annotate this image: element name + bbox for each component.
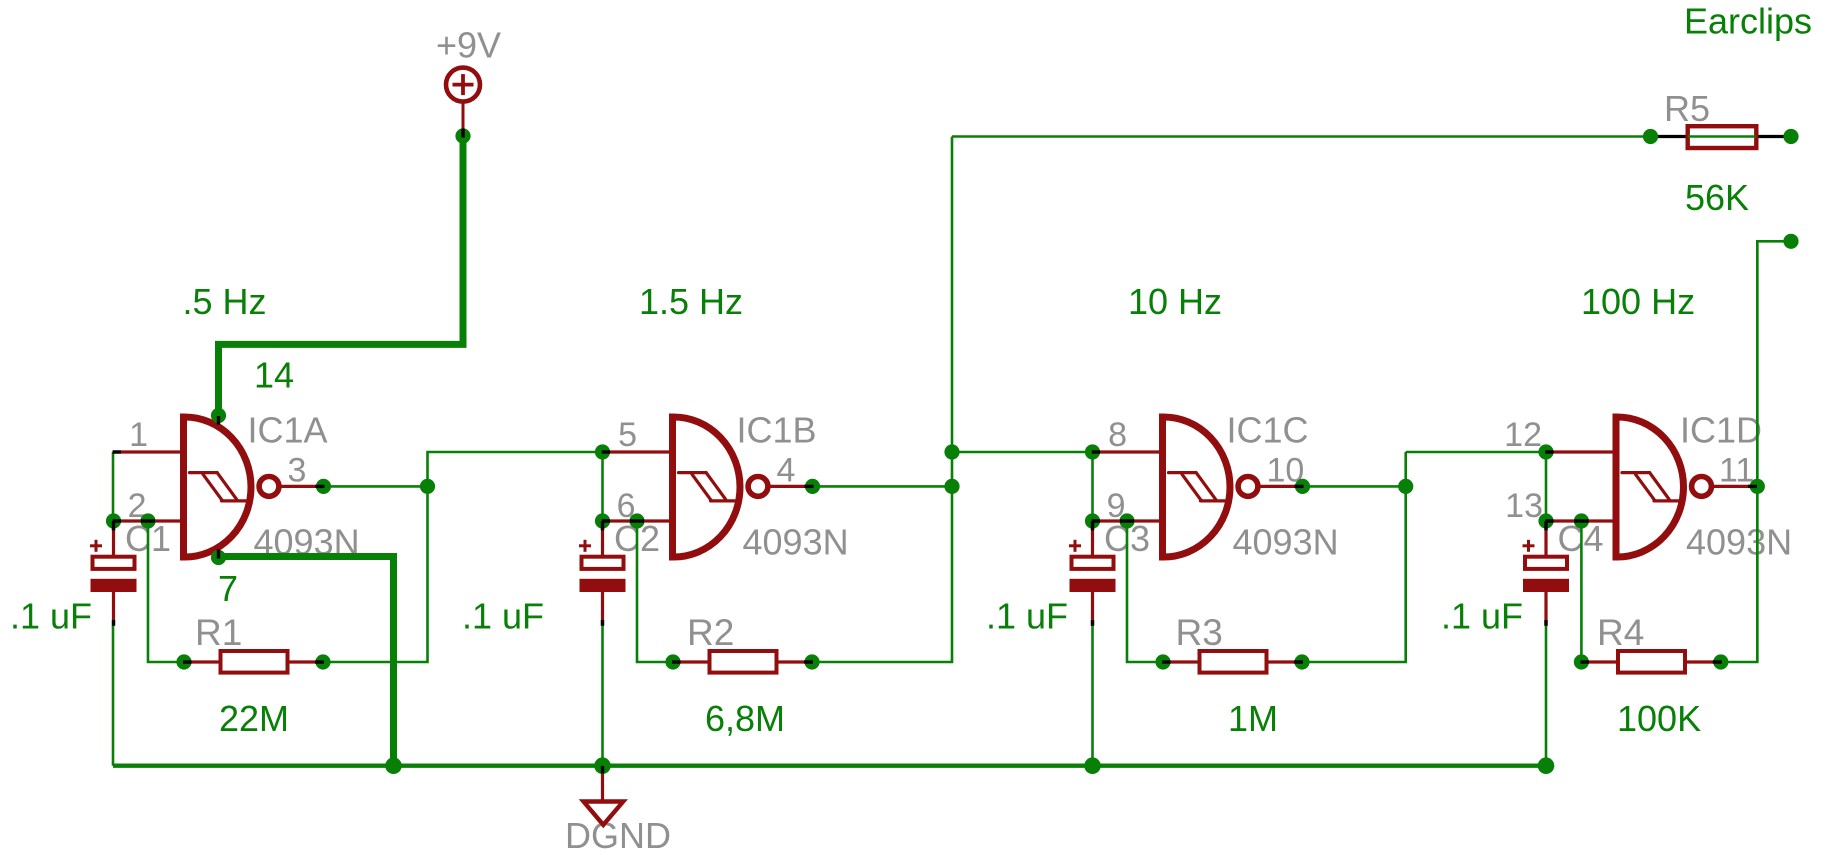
junction R1 left — [176, 654, 191, 669]
pin contact at R4 feedback tap — [1574, 519, 1588, 522]
capacitor C4 bottom lead — [1544, 592, 1547, 626]
resistor R4 body — [1618, 651, 1685, 673]
junction node B at pin8 wire — [944, 444, 959, 459]
junction R1 right — [315, 654, 330, 669]
junction R3 left — [1155, 654, 1170, 669]
svg-text:12: 12 — [1504, 416, 1542, 454]
wire IC1C output to node C — [1303, 485, 1406, 488]
supply symbol +9V — [446, 68, 480, 136]
capacitor C3 plus sign — [1069, 540, 1081, 552]
ground symbol DGND triangle — [584, 802, 624, 825]
wire R2 left leg — [637, 521, 673, 662]
junction R4 right — [1713, 654, 1728, 669]
svg-text:R4: R4 — [1597, 612, 1644, 653]
resistor R2 body — [710, 651, 777, 673]
junction R3 feedback tap — [1119, 513, 1134, 528]
IC1C pin 10 stub — [1258, 485, 1303, 488]
NAND gate IC1B body — [673, 417, 741, 557]
capacitor C1 top lead — [112, 521, 115, 556]
svg-text:22M: 22M — [219, 698, 289, 739]
svg-text:IC1D: IC1D — [1680, 410, 1762, 451]
wire IC1B output to node B — [813, 485, 953, 488]
capacitor C2 bottom plate — [580, 579, 626, 592]
pin tip R2 right — [804, 660, 813, 663]
NAND gate IC1A body — [184, 417, 252, 557]
pin tip IC1D pin 12 — [1545, 450, 1553, 453]
resistor R4 right lead — [1687, 660, 1721, 663]
capacitor C3 bottom plate — [1070, 579, 1116, 592]
junction node B at output wire — [944, 479, 959, 494]
wire +9V supply (thick) — [219, 136, 464, 416]
junction R5 right / Earclips — [1783, 129, 1798, 144]
IC1A pin 1 stub — [113, 450, 184, 453]
svg-text:IC1C: IC1C — [1227, 410, 1309, 451]
pin tip IC1A pin14 — [217, 416, 220, 425]
junction IC1A output node — [420, 479, 435, 494]
svg-text:1M: 1M — [1228, 698, 1278, 739]
junction R5 left — [1643, 129, 1658, 144]
capacitor C2 top lead — [601, 521, 604, 556]
junction IC1A bottom input / cap top — [106, 513, 121, 528]
wire R1 left leg — [148, 521, 184, 662]
wire IC1A pin7 to ground bus (thick) — [219, 557, 394, 766]
capacitor C1 plus sign — [90, 540, 102, 552]
resistor R4 left lead — [1581, 660, 1616, 663]
IC1D inversion bubble — [1692, 477, 1712, 497]
IC1B pin 5 stub — [602, 450, 673, 453]
pin tip IC1D pin 13 — [1545, 519, 1553, 522]
svg-text:100 Hz: 100 Hz — [1581, 281, 1695, 322]
wire ground bus — [113, 764, 1546, 768]
wire node B vertical (IC1B output net) — [813, 137, 953, 663]
pin contact at R1 feedback tap — [141, 519, 155, 522]
svg-text:.1 uF: .1 uF — [10, 596, 92, 637]
capacitor C4 plus sign — [1523, 540, 1535, 552]
capacitor C1 top plate — [93, 557, 135, 569]
pin tip IC1C pin 9 — [1092, 519, 1100, 522]
capacitor C2 plus sign — [579, 540, 591, 552]
junction R2 left — [665, 654, 680, 669]
IC1D pin 13 stub — [1545, 519, 1616, 522]
pin tip DGND — [601, 766, 604, 774]
IC1D pin 12 stub — [1545, 450, 1616, 453]
svg-text:8: 8 — [1108, 416, 1127, 454]
pin tip C1 bottom — [112, 620, 115, 626]
resistor R5 right lead (black) — [1758, 135, 1791, 138]
pin tip IC1B pin 5 — [602, 450, 610, 453]
IC1C pin 9 stub — [1092, 519, 1163, 522]
IC1A pin 2 stub — [113, 519, 184, 522]
svg-text:56K: 56K — [1685, 177, 1749, 218]
capacitor C4 top lead — [1544, 521, 1547, 556]
junction R1 feedback tap — [140, 513, 155, 528]
pin tip C1 top — [112, 521, 115, 530]
svg-text:.1 uF: .1 uF — [462, 596, 544, 637]
svg-text:R1: R1 — [195, 612, 242, 653]
svg-text:.1 uF: .1 uF — [986, 596, 1068, 637]
wire node B to IC1C pin8 — [952, 451, 1093, 454]
junction IC1B output — [805, 479, 820, 494]
svg-text:Earclips: Earclips — [1684, 1, 1812, 42]
IC1D schmitt-trigger mark — [1622, 473, 1678, 501]
svg-text:4: 4 — [777, 451, 796, 489]
wire pin8 to pin9 tie — [1091, 452, 1094, 521]
IC1B inversion bubble — [748, 477, 768, 497]
wire C2 bottom to bus (DGND node) — [601, 626, 604, 766]
junction IC1B top input — [595, 444, 610, 459]
IC1C pin 8 stub — [1092, 450, 1163, 453]
svg-text:13: 13 — [1505, 487, 1543, 525]
capacitor C4 top plate — [1525, 557, 1567, 569]
svg-text:4093N: 4093N — [743, 522, 849, 563]
junction C3 at bus — [1084, 757, 1101, 774]
pin tip IC1B pin 6 — [602, 519, 610, 522]
pin tip IC1C pin 10 — [1295, 485, 1304, 488]
capacitor C2 top plate — [582, 557, 624, 569]
pin tip IC1A pin 1 — [113, 450, 121, 453]
pin tip R2 left — [672, 660, 681, 663]
junction R2 feedback tap — [629, 513, 644, 528]
pin tip IC1B pin 4 — [805, 485, 814, 488]
pin tip R4 left — [1580, 660, 1589, 663]
wire IC1A output to feedback node — [324, 485, 428, 488]
pin tip R3 right — [1294, 660, 1303, 663]
svg-text:DGND: DGND — [565, 815, 671, 855]
svg-text:R5: R5 — [1664, 88, 1710, 129]
svg-text:6,8M: 6,8M — [705, 698, 785, 739]
wire node B to R5 — [952, 135, 1651, 138]
wire C3 bottom to bus — [1091, 626, 1094, 766]
wire pin5 to pin6 tie — [601, 452, 604, 521]
IC1A schmitt-trigger mark — [190, 473, 246, 501]
svg-text:.5 Hz: .5 Hz — [183, 281, 267, 322]
resistor R1 body — [221, 651, 288, 673]
wire node C vertical (IC1C output net) — [1302, 452, 1406, 662]
wire node A vertical (IC1A output net) — [324, 452, 603, 662]
ground symbol DGND lead — [601, 768, 604, 802]
pin tip IC1A pin 3 — [316, 485, 325, 488]
wire node C to IC1D pin12 — [1406, 451, 1546, 454]
wire R5 through-line — [1651, 135, 1792, 138]
svg-text:+9V: +9V — [436, 25, 501, 66]
junction node C at output wire — [1398, 479, 1413, 494]
junction IC1D output — [1750, 479, 1765, 494]
pin tip IC1C pin 8 — [1092, 450, 1100, 453]
wire IC1D output vertical — [1756, 241, 1759, 662]
pin contact at R2 feedback tap — [630, 519, 644, 522]
capacitor C3 bottom lead — [1091, 592, 1094, 626]
IC1A pin 3 stub — [279, 485, 324, 488]
NAND gate IC1D body — [1616, 417, 1684, 557]
resistor R3 right lead — [1269, 660, 1303, 663]
svg-text:11: 11 — [1719, 451, 1754, 489]
IC1C schmitt-trigger mark — [1169, 473, 1225, 501]
IC1C inversion bubble — [1238, 477, 1258, 497]
junction IC1C top input — [1085, 444, 1100, 459]
pin tip R1 left — [183, 660, 192, 663]
resistor R2 left lead — [673, 660, 708, 663]
pin tip IC1A pin 2 — [113, 519, 121, 522]
capacitor C2 bottom lead — [601, 592, 604, 626]
svg-text:14: 14 — [254, 355, 294, 396]
junction +9V — [455, 128, 470, 143]
resistor R5 left lead (black) — [1651, 135, 1687, 138]
capacitor C1 bottom lead — [112, 592, 115, 626]
svg-text:7: 7 — [218, 568, 238, 609]
svg-text:1.5 Hz: 1.5 Hz — [639, 281, 743, 322]
pin contact at R3 feedback tap — [1120, 519, 1134, 522]
pin tip R3 left — [1162, 660, 1171, 663]
capacitor C4 bottom plate — [1523, 579, 1569, 592]
junction IC1D top input — [1538, 444, 1553, 459]
IC1B schmitt-trigger mark — [679, 473, 735, 501]
svg-text:IC1B: IC1B — [737, 410, 817, 451]
junction R3 right — [1294, 654, 1309, 669]
wire through R5 body — [1688, 135, 1756, 138]
wire C1 top to pin1/pin2 — [112, 452, 115, 521]
pin tip C2 top — [601, 521, 604, 530]
resistor R1 right lead — [290, 660, 324, 663]
resistor R3 left lead — [1163, 660, 1198, 663]
pin tip C4 top — [1544, 521, 1547, 530]
svg-text:IC1A: IC1A — [248, 410, 328, 451]
junction R4 feedback tap — [1574, 513, 1589, 528]
pin tip IC1A pin7 — [217, 550, 220, 559]
junction IC1A pin7 — [211, 550, 226, 565]
junction IC1D bottom input / cap top — [1538, 513, 1553, 528]
IC1B pin 4 stub — [768, 485, 813, 488]
IC1B pin 6 stub — [602, 519, 673, 522]
svg-text:4093N: 4093N — [1686, 522, 1792, 563]
capacitor C1 bottom plate — [91, 579, 137, 592]
IC1A inversion bubble — [259, 477, 279, 497]
svg-text:.1 uF: .1 uF — [1441, 596, 1523, 637]
svg-text:5: 5 — [618, 416, 637, 454]
NAND gate IC1C body — [1163, 417, 1231, 557]
junction Earclips return — [1783, 234, 1798, 249]
pin tip R4 right — [1713, 660, 1722, 663]
junction IC1A pin14 — [211, 408, 226, 423]
svg-text:3: 3 — [288, 451, 307, 489]
svg-text:100K: 100K — [1617, 698, 1701, 739]
capacitor C3 top lead — [1091, 521, 1094, 556]
pin tip C3 bottom — [1091, 620, 1094, 626]
resistor R3 body — [1200, 651, 1267, 673]
pin tip IC1D pin 11 — [1748, 485, 1757, 488]
junction R2 right — [804, 654, 819, 669]
pin tip +9V — [461, 129, 464, 138]
capacitor C3 top plate — [1072, 557, 1114, 569]
svg-text:R2: R2 — [687, 612, 734, 653]
svg-text:R3: R3 — [1176, 612, 1223, 653]
IC1D pin 11 stub — [1712, 485, 1757, 488]
junction DGND at bus — [594, 757, 611, 774]
resistor R2 right lead — [779, 660, 813, 663]
pin tip R1 right — [315, 660, 324, 663]
junction IC1C output — [1295, 479, 1310, 494]
junction IC1A output — [316, 479, 331, 494]
wire C4 bottom to bus — [1545, 626, 1548, 766]
svg-text:4093N: 4093N — [1233, 522, 1339, 563]
pin tip C4 bottom — [1544, 620, 1547, 626]
junction IC1B bottom input / cap top — [595, 513, 610, 528]
junction pin7 wire to bus — [385, 757, 402, 774]
junction IC1C bottom input / cap top — [1085, 513, 1100, 528]
wire pin12 to pin13 tie — [1545, 452, 1548, 521]
svg-text:10 Hz: 10 Hz — [1128, 281, 1222, 322]
junction R4 left — [1574, 654, 1589, 669]
pin tip C3 top — [1091, 521, 1094, 530]
wire R3 left leg — [1127, 521, 1163, 662]
wire C1 bottom to bus — [112, 626, 115, 766]
wire R4 left leg — [1580, 521, 1583, 662]
resistor R5 body — [1688, 126, 1757, 148]
pin tip C2 bottom — [601, 620, 604, 626]
svg-text:1: 1 — [129, 416, 148, 454]
resistor R1 left lead — [184, 660, 219, 663]
wire R4 right to IC1D output / Earclips — [1721, 241, 1791, 662]
junction C4 at bus — [1538, 757, 1555, 774]
